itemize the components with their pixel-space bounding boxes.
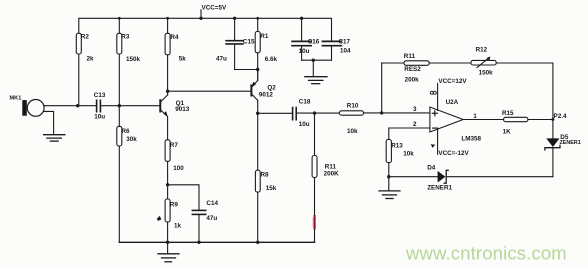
svg-text:R1: R1 — [260, 33, 269, 40]
svg-text:47u: 47u — [216, 56, 227, 63]
svg-text:9012: 9012 — [259, 91, 274, 98]
svg-text:10k: 10k — [347, 128, 358, 135]
svg-text:R10: R10 — [347, 103, 359, 110]
svg-text:200K: 200K — [324, 171, 340, 178]
resistor R11 (vertical 200K) — [312, 113, 339, 242]
wire Q2 collector to C18 — [258, 112, 292, 114]
wire D4 to right vertical — [447, 176, 553, 178]
svg-text:C17: C17 — [339, 38, 351, 45]
svg-text:U2A: U2A — [446, 99, 459, 106]
op-amp power top VCC=12V — [430, 78, 467, 110]
power flag VCC=5V — [200, 10, 202, 18]
svg-text:9013: 9013 — [175, 106, 190, 113]
ink blot left of R9 — [157, 216, 162, 221]
wire R7/R9 node to C14 — [168, 185, 199, 210]
resistor R6 — [117, 106, 137, 243]
svg-text:C14: C14 — [206, 200, 218, 207]
svg-text:200k: 200k — [405, 76, 420, 83]
svg-text:R6: R6 — [122, 128, 131, 135]
svg-text:150k: 150k — [479, 70, 494, 77]
svg-text:LM358: LM358 — [461, 136, 481, 143]
capacitor C14 — [192, 200, 218, 242]
svg-text:150k: 150k — [126, 56, 141, 63]
wire Q1 collector to Q2 base — [168, 90, 251, 92]
svg-text:R7: R7 — [170, 142, 179, 149]
transistor Q1 9013 — [160, 91, 189, 140]
pin 2 wire — [389, 128, 430, 140]
svg-text:RES2: RES2 — [404, 66, 421, 73]
resistor R3 — [117, 18, 141, 105]
bottom ground rail — [119, 241, 314, 243]
capacitor C13 — [94, 92, 160, 120]
wire C16-C17 bottoms — [302, 59, 332, 61]
svg-text:104: 104 — [340, 47, 351, 54]
resistor R10 — [315, 103, 430, 135]
resistor R4 — [165, 18, 186, 91]
svg-text:R11: R11 — [325, 163, 337, 170]
svg-text:C16: C16 — [308, 38, 320, 45]
svg-text:C13: C13 — [94, 92, 106, 99]
ground under rail — [158, 242, 179, 261]
svg-text:6.6k: 6.6k — [265, 56, 278, 63]
svg-text:3: 3 — [413, 106, 417, 113]
svg-text:R15: R15 — [502, 110, 514, 117]
svg-text:P2.4: P2.4 — [554, 113, 567, 120]
svg-text:D4: D4 — [427, 164, 436, 171]
svg-text:www.cntronics.com: www.cntronics.com — [405, 243, 567, 264]
svg-text:30k: 30k — [126, 136, 137, 143]
resistor R8 — [255, 113, 276, 242]
transistor Q2 9012 — [251, 70, 276, 114]
wire R13 node to D4 — [389, 176, 438, 178]
svg-text:1K: 1K — [503, 128, 512, 135]
svg-text:C18: C18 — [299, 99, 311, 106]
capacitor C18 — [293, 99, 315, 128]
svg-text:R11: R11 — [404, 53, 416, 60]
svg-text:R2: R2 — [81, 34, 90, 41]
svg-text:10u: 10u — [299, 121, 310, 128]
svg-text:R13: R13 — [391, 143, 403, 150]
svg-text:C15: C15 — [243, 39, 255, 46]
svg-text:R4: R4 — [170, 34, 179, 41]
resistor R13 — [386, 140, 414, 177]
svg-text:VCC=-12V: VCC=-12V — [438, 150, 469, 157]
top VCC rail — [79, 18, 332, 40]
op-amp U2A — [430, 99, 482, 143]
wire mic to C13 — [44, 105, 96, 107]
diode D5 ZENER1 — [545, 119, 581, 176]
svg-text:2k: 2k — [87, 56, 95, 63]
op-amp power bottom VCC=-12V — [431, 129, 470, 157]
capacitor C17 — [322, 38, 351, 60]
svg-text:R12: R12 — [476, 46, 488, 53]
feedback wire up from pin3 node — [381, 63, 383, 113]
svg-text:VCC=5V: VCC=5V — [202, 5, 227, 12]
capacitor C16 — [292, 18, 320, 60]
resistor R15 — [502, 110, 553, 135]
svg-text:MK1: MK1 — [10, 95, 22, 101]
svg-text:15k: 15k — [266, 185, 277, 192]
ground under R13 — [379, 177, 400, 199]
svg-text:5k: 5k — [179, 56, 187, 63]
svg-text:10u: 10u — [94, 113, 105, 120]
resistor R9 — [157, 199, 182, 242]
svg-text:R3: R3 — [121, 34, 130, 41]
svg-text:10u: 10u — [299, 48, 310, 55]
ground under C16/C17 — [305, 60, 327, 83]
right vertical wire down to P2.4 — [552, 63, 554, 119]
output pin 1 wire — [463, 119, 504, 121]
resistor R1 — [255, 18, 277, 79]
svg-text:ZENER1: ZENER1 — [560, 140, 581, 146]
svg-text:1k: 1k — [174, 223, 182, 230]
diode D4 ZENER1 — [427, 164, 452, 191]
ground under mic — [44, 135, 65, 141]
svg-text:VCC=12V: VCC=12V — [438, 78, 467, 85]
svg-text:R9: R9 — [170, 201, 179, 208]
svg-text:100: 100 — [173, 165, 184, 172]
svg-text:47u: 47u — [206, 215, 217, 222]
microphone MK1 — [10, 95, 45, 116]
svg-text:ZENER1: ZENER1 — [427, 185, 452, 192]
resistor R12 (150k trimmer) — [471, 46, 553, 76]
svg-text:1: 1 — [473, 113, 477, 120]
resistor R2 — [76, 33, 94, 105]
resistor R7 — [165, 140, 184, 199]
capacitor C15 — [216, 18, 258, 69]
svg-text:2: 2 — [413, 121, 417, 128]
svg-text:R8: R8 — [261, 171, 270, 178]
wire mic to ground — [44, 111, 54, 134]
resistor R11 (horizontal 200k feedback) — [382, 53, 471, 83]
red mark on R11 wire — [312, 218, 314, 227]
svg-text:10k: 10k — [403, 150, 414, 157]
